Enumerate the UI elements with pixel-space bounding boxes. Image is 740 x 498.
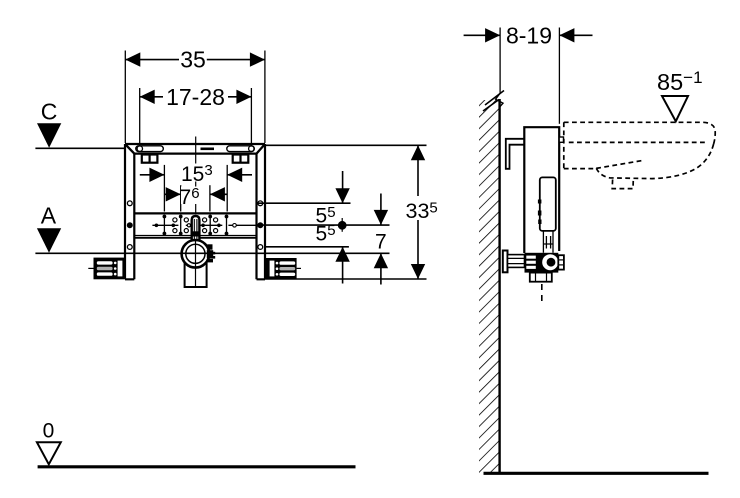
svg-text:8-19: 8-19 [506, 22, 552, 48]
svg-text:7: 7 [375, 230, 387, 253]
side foot: block ribbed part [525, 253, 538, 273]
level line lower bolt [265, 246, 349, 248]
svg-text:35: 35 [180, 47, 206, 73]
dim 8-19 line right [559, 34, 592, 36]
wall face line [498, 99, 500, 474]
washbasin dashed: bowl curve [596, 144, 713, 179]
foot left box [94, 258, 125, 280]
svg-text:C: C [41, 98, 58, 124]
left rail hole mid (filled) [127, 222, 133, 228]
level line mid bolt [258, 224, 390, 226]
dim 33-5 arrow top [411, 145, 425, 160]
dim 15-3 arrow left [149, 168, 164, 182]
top bar slot left circle [137, 146, 142, 151]
hole tick 2 [180, 217, 182, 234]
dim 15-3 arrow line right [227, 174, 252, 176]
dim 17-28 extension line right [250, 88, 252, 149]
dim 35 line left segment [125, 59, 179, 61]
dim 7-6 label [181, 187, 207, 205]
drain clamp outer circle [182, 240, 210, 268]
ground line side [484, 472, 709, 475]
hole tick 3 [209, 217, 211, 234]
dim 33-5 arrow bottom [411, 264, 425, 279]
right rail hole top [258, 201, 263, 206]
side foot: wall plate [503, 251, 508, 273]
centerline vertical of frame [195, 137, 197, 214]
left rail hole top [127, 201, 132, 206]
label A triangle [37, 228, 61, 253]
drain clamp inner circle [186, 244, 205, 263]
dim 7-6 tick left [180, 185, 182, 211]
hole tick 4 [226, 217, 228, 234]
dim 17-28 line left segment [140, 96, 163, 98]
dim 15-3 label [180, 164, 216, 182]
level line A (through drain center) [35, 252, 389, 254]
dim 8-19 arrow left [485, 28, 500, 42]
top hanger tab [559, 137, 563, 142]
label 85-1 triangle (open) [662, 96, 688, 121]
wall bracket side [506, 139, 525, 169]
crossbar center line horizontal [152, 224, 256, 226]
clamp screw [207, 244, 212, 249]
dim 7-6 arrow line right [210, 193, 227, 195]
dim 7 arrow up [380, 253, 382, 284]
frame right rail [257, 144, 266, 279]
frame left rail [125, 144, 134, 279]
washbasin dashed: top edge [564, 122, 715, 144]
washbasin dashed: left edge [563, 122, 565, 169]
dim 15-3 tick left [163, 165, 165, 212]
crossbar top line [134, 212, 256, 214]
right rail hole mid (filled) [257, 222, 263, 228]
label 0 triangle (open) [37, 442, 61, 464]
inner unit lower pipe [543, 231, 553, 253]
dim 35 line right segment [207, 59, 265, 61]
dim 33-5 vertical line [417, 145, 419, 196]
washbasin dashed: rim line [569, 141, 707, 143]
pipe center line [195, 240, 197, 288]
side foot: block body with bolt [538, 253, 559, 273]
svg-text:0: 0 [43, 420, 55, 443]
top bar slot right [227, 146, 255, 152]
dim 5-5 lower arrow up [342, 247, 344, 284]
svg-text:17-28: 17-28 [166, 84, 225, 110]
dim 17-28 arrow left [140, 90, 155, 104]
dim 15-3 arrow right [227, 168, 242, 182]
dim 17-28 extension line left [139, 88, 141, 149]
dim 15-3 arrow line left [140, 174, 165, 176]
dim 35 arrow left [125, 52, 140, 66]
top bar center dash [201, 148, 215, 151]
level line upper bolt [258, 202, 351, 204]
dim 7-6 arrow right [210, 187, 225, 201]
reference dot [338, 221, 347, 230]
side rail box [524, 127, 559, 253]
inner flush unit [540, 177, 556, 231]
dim 17-28 arrow right [236, 90, 251, 104]
wall break symbol [496, 94, 503, 108]
dim 8-19 tick right [558, 28, 560, 124]
ground line front [38, 465, 356, 468]
foot left tick [88, 267, 93, 269]
dim 15-3 tick right [226, 165, 228, 212]
frame top bar outer [125, 144, 265, 154]
top bar slot right circle [249, 146, 254, 151]
dim 35 arrow right [250, 52, 265, 66]
foot right box [266, 258, 297, 279]
dim 7-6 arrow left [166, 187, 181, 201]
dim 35 extension line right [264, 51, 266, 144]
right rail hole bottom [258, 245, 263, 250]
foot right tick [297, 267, 301, 269]
level line bottom right (33-5 bottom) [265, 278, 427, 280]
top bar slot left [136, 146, 164, 152]
central threaded rod [192, 216, 200, 243]
dashed center line below foot [541, 284, 543, 303]
label C triangle [37, 123, 61, 148]
washbasin dashed: bottom left [564, 168, 597, 170]
dim 35 extension line left [124, 51, 126, 144]
dim 8-19 arrow right [559, 28, 574, 42]
small holes [173, 218, 218, 233]
washbasin dashed: drain [612, 179, 633, 188]
svg-text:A: A [41, 203, 57, 229]
wall hatching [479, 100, 500, 474]
inner unit nubs [538, 200, 542, 204]
dim 7-6 tick right [209, 185, 211, 211]
level line C [35, 147, 125, 149]
bracket right below top bar [233, 155, 249, 163]
side foot: lower box [530, 273, 552, 282]
hole tick 1 [163, 217, 165, 234]
side foot: nut [558, 255, 564, 269]
drain pipe below clamp [185, 262, 207, 287]
crossbar bottom line [134, 235, 256, 237]
bracket left below top bar [142, 155, 158, 163]
washbasin dashed: inner bowl slope [596, 160, 643, 168]
level line top right (33-5 top) [265, 144, 427, 146]
dim 8-19 line left [464, 34, 501, 36]
dim 5-5 upper arrow down [342, 171, 344, 203]
side foot: rod [508, 255, 525, 268]
dim 7-6 arrow line left [164, 193, 180, 195]
dim 8-19 tick left (wall extension) [499, 28, 501, 94]
dim 7 arrow down [380, 194, 382, 225]
left rail hole bottom [127, 245, 132, 250]
dim 17-28 line right segment [228, 96, 251, 98]
